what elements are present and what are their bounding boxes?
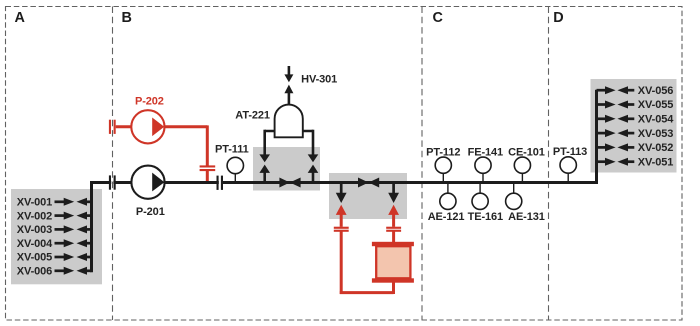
svg-text:A: A [15, 10, 26, 26]
svg-text:PT-111: PT-111 [215, 144, 249, 156]
svg-text:C: C [433, 10, 443, 26]
svg-text:P-202: P-202 [135, 95, 164, 107]
svg-text:CE-101: CE-101 [508, 146, 545, 158]
svg-text:XV-053: XV-053 [638, 128, 673, 140]
svg-text:PT-112: PT-112 [426, 146, 460, 158]
svg-text:XV-055: XV-055 [638, 99, 673, 111]
svg-text:HV-301: HV-301 [301, 73, 337, 85]
svg-text:XV-051: XV-051 [638, 156, 673, 168]
svg-text:AE-131: AE-131 [508, 211, 545, 223]
svg-text:TE-161: TE-161 [468, 211, 503, 223]
svg-text:XV-054: XV-054 [638, 114, 674, 126]
svg-text:PT-113: PT-113 [553, 146, 587, 158]
svg-text:XV-003: XV-003 [17, 224, 52, 236]
svg-text:XV-006: XV-006 [17, 266, 52, 278]
svg-text:XV-004: XV-004 [17, 238, 53, 250]
svg-text:B: B [122, 10, 132, 26]
svg-text:FE-141: FE-141 [468, 146, 503, 158]
svg-text:XV-052: XV-052 [638, 142, 673, 154]
svg-text:XV-001: XV-001 [17, 197, 52, 209]
svg-text:XV-002: XV-002 [17, 210, 52, 222]
svg-text:D: D [553, 10, 563, 26]
svg-text:P-201: P-201 [136, 206, 165, 218]
svg-text:AE-121: AE-121 [428, 211, 465, 223]
svg-text:XV-056: XV-056 [638, 85, 673, 97]
svg-text:AT-221: AT-221 [235, 109, 270, 121]
svg-text:XV-005: XV-005 [17, 252, 52, 264]
